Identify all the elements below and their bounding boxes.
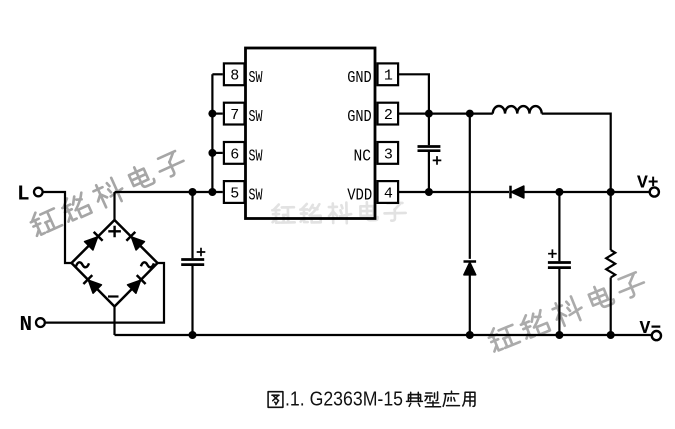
junction C2 top	[425, 110, 433, 118]
svg-text:3: 3	[384, 146, 393, 163]
svg-text:SW: SW	[249, 107, 263, 126]
svg-text:SW: SW	[249, 68, 263, 87]
caption 应 glyph	[443, 391, 459, 406]
svg-text:NC: NC	[354, 147, 372, 166]
pin 8 box	[224, 63, 245, 85]
junction C3 bottom	[555, 331, 563, 339]
wire D1 to V+	[523, 191, 650, 193]
bridge diode top-right	[126, 232, 144, 250]
caption 图 glyph	[268, 392, 283, 408]
bridge diode top-left	[84, 232, 102, 250]
wire pin7 stub	[212, 112, 222, 114]
wire pin1 to pin2 node	[398, 74, 429, 113]
wire zener branch lower	[469, 274, 471, 335]
inductor L1	[493, 106, 542, 114]
svg-text:VDD: VDD	[347, 186, 372, 205]
pin 1 box	[378, 63, 399, 85]
terminal L	[34, 188, 43, 197]
wire pin6 stub	[212, 152, 222, 154]
junction pin6	[208, 149, 216, 157]
diode D2	[464, 262, 477, 275]
wire zener branch upper	[469, 114, 471, 259]
junction R1 bottom	[607, 331, 615, 339]
bridge rectifier BR1	[72, 220, 158, 307]
bridge tilde right	[141, 262, 154, 267]
wire C3 branch lower	[558, 269, 560, 335]
junction R1 top	[607, 188, 615, 196]
wire SW main horizontal	[115, 191, 223, 193]
bridge plus mark	[108, 226, 121, 238]
wire C1 branch lower	[191, 266, 193, 335]
wire R1 branch lower	[610, 278, 612, 336]
wire pin2 to inductor	[398, 112, 493, 114]
svg-text:4: 4	[384, 185, 393, 202]
bridge minus mark	[108, 295, 119, 297]
caption 型 glyph	[425, 392, 441, 407]
wire C1 branch upper	[191, 192, 193, 258]
svg-text:.1. G2363M-15: .1. G2363M-15	[285, 389, 403, 411]
svg-text:L: L	[17, 184, 30, 207]
wire C2 branch lower	[428, 152, 430, 192]
IC U1 body	[246, 48, 376, 219]
svg-text:V+: V+	[637, 174, 659, 194]
resistor R1	[606, 250, 615, 278]
bridge tilde left	[76, 262, 89, 267]
pin 2 box	[378, 103, 399, 125]
wire inductor to corner down	[542, 114, 611, 192]
watermark 钲铭科电子 center (light)	[272, 201, 406, 224]
svg-text:5: 5	[230, 185, 239, 202]
junction pin7	[208, 110, 216, 118]
junction C1 bottom	[189, 331, 197, 339]
wire C3 branch upper	[558, 192, 560, 261]
svg-text:1: 1	[384, 68, 393, 85]
junction D2 top	[466, 110, 474, 118]
pin 3 box	[378, 142, 399, 164]
svg-text:8: 8	[230, 68, 239, 85]
bridge diode bottom-right	[127, 275, 145, 293]
wire ground rail	[115, 334, 652, 336]
watermark 钲铭科电子 right	[486, 269, 648, 354]
pin 4 box	[378, 181, 399, 203]
junction D2 bottom	[466, 331, 474, 339]
wire pin8 stub	[212, 73, 222, 75]
svg-text:SW: SW	[249, 186, 263, 205]
svg-text:SW: SW	[249, 147, 263, 166]
wire pin4 VDD to D1	[398, 191, 509, 193]
wire bridge minus down	[113, 307, 115, 336]
wire bridge plus up	[113, 192, 115, 220]
svg-text:GND: GND	[347, 107, 372, 126]
wire C2 branch upper	[428, 114, 430, 146]
junction C2 bottom / VDD	[425, 188, 433, 196]
svg-text:2: 2	[384, 107, 393, 124]
svg-text:GND: GND	[347, 68, 372, 87]
junction SW chain bottom	[208, 188, 216, 196]
watermark 钲铭科电子 left	[28, 148, 188, 239]
wire R1 branch upper	[610, 192, 612, 250]
wire L to bridge left	[43, 192, 72, 263]
junction C3 top	[555, 188, 563, 196]
svg-text:6: 6	[230, 146, 239, 163]
terminal V-	[652, 331, 661, 340]
pin 5 box	[224, 181, 245, 203]
terminal V+	[650, 187, 659, 196]
junction C1 top	[189, 188, 197, 196]
capacitor C2	[418, 147, 441, 151]
capacitor C1	[181, 260, 204, 265]
wire N to bridge right	[45, 263, 164, 323]
bridge diode bottom-left	[83, 275, 101, 293]
pin 6 box	[224, 142, 245, 164]
capacitor C3	[548, 263, 571, 268]
pin 7 box	[224, 103, 245, 125]
caption 典 glyph	[407, 391, 475, 407]
caption 用 glyph	[463, 392, 475, 406]
svg-text:7: 7	[230, 107, 239, 124]
svg-text:V: V	[640, 319, 651, 339]
diode D1	[511, 186, 524, 199]
svg-text:N: N	[20, 314, 33, 337]
terminal N	[36, 318, 45, 327]
wire SW pin chain vertical	[211, 74, 213, 192]
